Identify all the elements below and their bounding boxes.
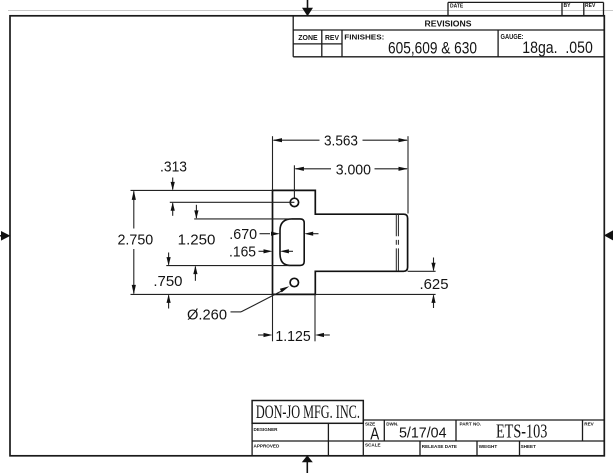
leader and label for hole diameter .260 xyxy=(231,290,284,312)
dimension .313 xyxy=(172,178,174,190)
title block: company box xyxy=(252,401,363,424)
svg-text:A: A xyxy=(370,424,379,444)
dimension 3.563 xyxy=(274,139,408,141)
svg-text:5/17/04: 5/17/04 xyxy=(399,425,447,442)
bottom screw hole xyxy=(290,278,298,286)
svg-text:605,609 & 630: 605,609 & 630 xyxy=(388,40,477,58)
dimension 2.750 xyxy=(133,191,135,293)
svg-text:APPROVED: APPROVED xyxy=(254,444,280,449)
ext cutout bottom xyxy=(166,265,290,267)
svg-text:SHEET: SHEET xyxy=(521,444,537,449)
svg-text:ZONE: ZONE xyxy=(298,33,317,42)
svg-text:.313: .313 xyxy=(160,158,187,175)
svg-text:FINISHES:: FINISHES: xyxy=(344,32,384,41)
svg-text:BY: BY xyxy=(564,3,572,9)
svg-text:ETS-103: ETS-103 xyxy=(496,421,547,443)
dimension 1.125 xyxy=(258,334,264,336)
svg-text:.165: .165 xyxy=(229,244,256,261)
svg-text:SCALE: SCALE xyxy=(365,442,381,447)
hole center line xyxy=(170,201,295,203)
svg-text:DON-JO MFG. INC.: DON-JO MFG. INC. xyxy=(256,402,360,423)
ext lip bottom to right xyxy=(408,270,436,272)
dimension 3.000 xyxy=(295,168,407,170)
ext lip end up xyxy=(407,136,409,213)
ext plate top to left xyxy=(131,189,273,191)
svg-text:.750: .750 xyxy=(153,273,182,290)
svg-text:RELEASE DATE: RELEASE DATE xyxy=(422,444,457,449)
center mark arrow top xyxy=(302,0,313,16)
D-shaped latch cutout xyxy=(280,219,304,266)
ext plate right down xyxy=(314,294,316,341)
svg-text:18ga. .050: 18ga. .050 xyxy=(522,39,593,57)
svg-text:REV: REV xyxy=(584,421,594,426)
revision history table cut off at top xyxy=(448,2,604,15)
svg-text:1.250: 1.250 xyxy=(178,231,216,248)
svg-text:1.125: 1.125 xyxy=(275,328,310,345)
dimension .750 xyxy=(168,253,170,265)
svg-text:WEIGHT: WEIGHT xyxy=(479,444,498,449)
center mark arrow left xyxy=(0,231,10,241)
center mark arrow right xyxy=(604,230,613,240)
dimension 1.250 xyxy=(195,205,197,218)
svg-text:Ø.260: Ø.260 xyxy=(187,307,227,324)
svg-text:PART NO.: PART NO. xyxy=(460,421,482,426)
title block lines xyxy=(252,420,604,456)
svg-text:GAUGE:: GAUGE: xyxy=(501,32,524,41)
bend tangent line 2 xyxy=(397,214,399,271)
ext plate bottom to left xyxy=(131,293,273,295)
ext cutout top xyxy=(194,218,292,220)
svg-text:DWN.: DWN. xyxy=(386,421,398,426)
paper edge faint line xyxy=(8,10,613,12)
svg-text:.625: .625 xyxy=(420,276,449,293)
revisions block lines xyxy=(293,16,604,57)
ext hole center up xyxy=(293,165,295,197)
center mark arrow bottom xyxy=(302,455,313,473)
svg-text:2.750: 2.750 xyxy=(118,231,154,248)
dimension .165 xyxy=(259,250,264,252)
bend tangent line 1 xyxy=(395,214,397,271)
dimension .670 xyxy=(260,233,271,235)
svg-text:.670: .670 xyxy=(229,226,257,243)
ext plate bottom to right xyxy=(315,293,435,295)
extension + center lines (thin) xyxy=(131,136,436,341)
svg-text:REV: REV xyxy=(585,3,596,9)
svg-text:REV: REV xyxy=(325,33,339,42)
top screw hole xyxy=(290,198,298,206)
ext plate left down xyxy=(272,294,274,341)
part outline xyxy=(273,190,408,294)
svg-text:3.563: 3.563 xyxy=(324,133,358,150)
ext plate left up xyxy=(272,136,274,190)
svg-text:REVISIONS: REVISIONS xyxy=(425,18,472,28)
svg-text:DESIGNER: DESIGNER xyxy=(254,427,279,432)
svg-text:DATE: DATE xyxy=(450,3,464,9)
dimension .625 xyxy=(433,258,435,271)
svg-text:3.000: 3.000 xyxy=(336,161,371,178)
